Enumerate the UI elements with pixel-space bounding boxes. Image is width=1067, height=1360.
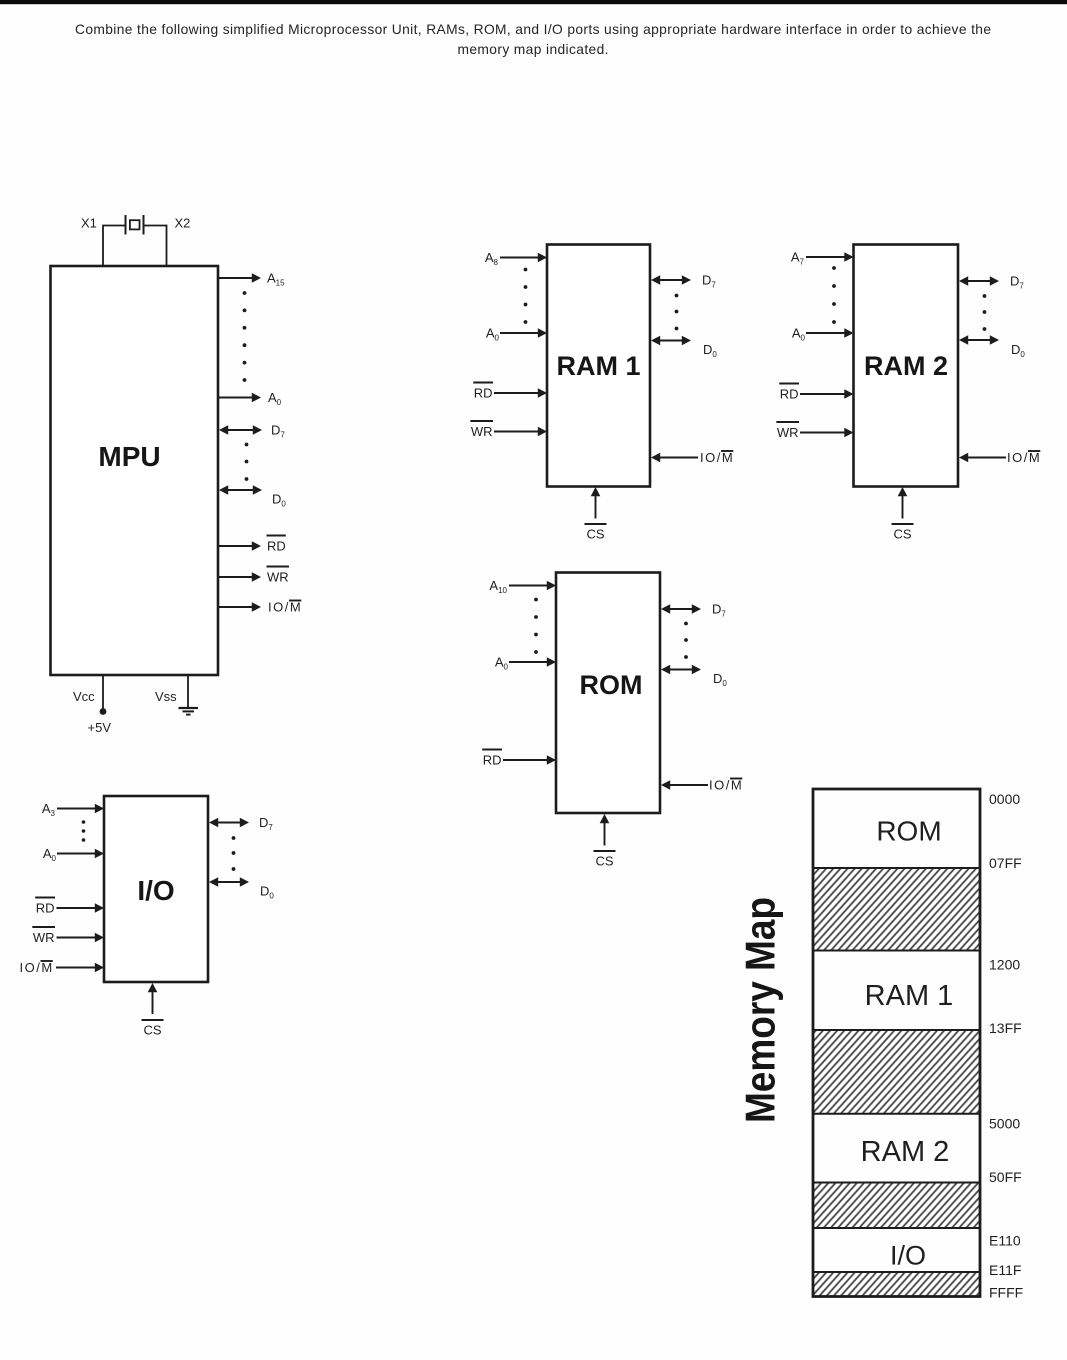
svg-text:RAM 1: RAM 1	[556, 351, 640, 381]
svg-text:RAM 2: RAM 2	[861, 1136, 950, 1168]
svg-text:Combine the following simplifi: Combine the following simplified Micropr…	[75, 22, 991, 37]
svg-text:ROM: ROM	[580, 670, 643, 700]
svg-text:IO/M: IO/M	[709, 778, 743, 793]
svg-text:+5V: +5V	[88, 720, 112, 735]
svg-text:X2: X2	[175, 216, 191, 231]
svg-text:RD: RD	[780, 387, 799, 402]
svg-text:WR: WR	[471, 424, 493, 439]
svg-text:Vcc: Vcc	[73, 689, 95, 704]
svg-text:CS: CS	[893, 527, 911, 542]
svg-text:50FF: 50FF	[989, 1169, 1022, 1185]
svg-text:WR: WR	[267, 570, 289, 585]
svg-text:FFFF: FFFF	[989, 1285, 1023, 1301]
svg-text:MPU: MPU	[98, 441, 160, 472]
svg-text:IO/M: IO/M	[20, 960, 54, 975]
svg-text:ROM: ROM	[876, 816, 941, 847]
svg-text:IO/M: IO/M	[268, 600, 302, 615]
svg-text:5000: 5000	[989, 1116, 1020, 1132]
svg-text:07FF: 07FF	[989, 855, 1022, 871]
svg-text:CS: CS	[143, 1023, 161, 1038]
svg-text:X1: X1	[81, 216, 97, 231]
svg-text:13FF: 13FF	[989, 1020, 1022, 1036]
svg-text:RAM 2: RAM 2	[864, 351, 948, 381]
svg-text:0000: 0000	[989, 791, 1020, 807]
svg-text:RD: RD	[483, 753, 502, 768]
svg-text:memory map indicated.: memory map indicated.	[458, 42, 609, 57]
svg-text:Memory Map: Memory Map	[737, 897, 784, 1123]
svg-text:WR: WR	[777, 425, 799, 440]
svg-text:IO/M: IO/M	[1007, 450, 1041, 465]
svg-text:CS: CS	[586, 527, 604, 542]
svg-text:RAM 1: RAM 1	[865, 980, 954, 1012]
svg-text:IO/M: IO/M	[700, 450, 734, 465]
svg-text:E11F: E11F	[989, 1262, 1021, 1278]
svg-text:RD: RD	[267, 539, 286, 554]
svg-text:1200: 1200	[989, 957, 1020, 973]
svg-text:I/O: I/O	[890, 1241, 926, 1271]
svg-text:CS: CS	[595, 854, 613, 869]
svg-text:RD: RD	[474, 386, 493, 401]
svg-text:Vss: Vss	[155, 689, 177, 704]
svg-text:WR: WR	[33, 930, 55, 945]
svg-text:I/O: I/O	[137, 875, 174, 906]
svg-text:E110: E110	[989, 1233, 1021, 1249]
svg-text:RD: RD	[36, 901, 55, 916]
